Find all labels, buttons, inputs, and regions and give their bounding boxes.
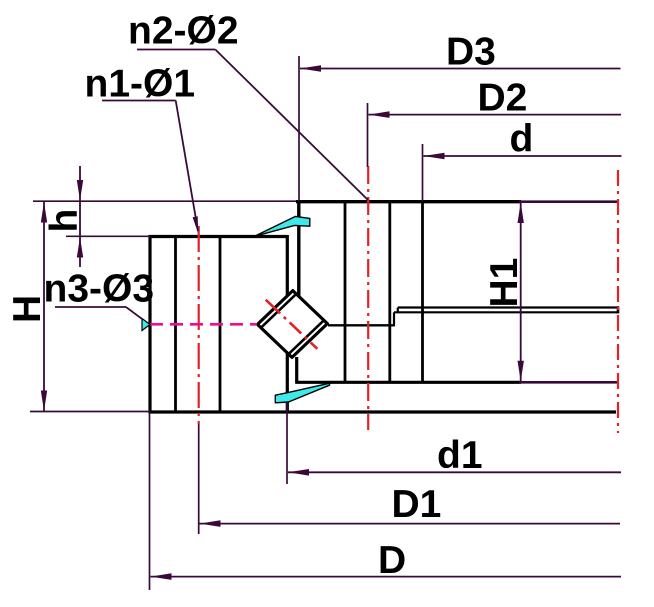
extension bottom surface left xyxy=(30,411,150,413)
top surface of outer ring xyxy=(296,200,618,203)
dimension D xyxy=(151,573,622,580)
extension D3 xyxy=(298,56,300,201)
inner ring top surface xyxy=(149,235,288,238)
seam upper line xyxy=(398,306,618,308)
roller axis diagonal center line xyxy=(266,300,318,349)
dimension h xyxy=(77,166,83,267)
dimension D1 xyxy=(200,520,621,527)
svg-text:H: H xyxy=(6,295,49,323)
svg-text:D: D xyxy=(378,539,406,582)
svg-text:d: d xyxy=(510,118,534,161)
leader n1 xyxy=(102,101,198,234)
lower raceway finish mark xyxy=(275,383,329,403)
seam right end connector xyxy=(617,306,620,313)
outer ring lower-half bore wall xyxy=(295,357,298,382)
seam line lower left of step xyxy=(328,324,394,326)
dimension d1 xyxy=(288,469,621,476)
seam step vertical right xyxy=(397,308,399,313)
center line n2 hole xyxy=(367,166,369,430)
roller diamond xyxy=(257,291,327,358)
svg-text:D2: D2 xyxy=(478,77,528,120)
inner ring right wall upper segment xyxy=(286,235,289,297)
inner ring right wall lower segment xyxy=(286,353,289,412)
dimension H xyxy=(41,201,47,411)
dimension d xyxy=(424,153,622,160)
inner ring bolt hole edge right xyxy=(219,237,222,412)
svg-text:n3-Ø3: n3-Ø3 xyxy=(44,268,155,311)
roller raceway line upper-left xyxy=(261,294,297,328)
extension D1 xyxy=(198,424,200,534)
leader n2 xyxy=(137,50,368,201)
n3 leader cyan triangle xyxy=(142,319,150,331)
inner ring bolt hole edge left xyxy=(174,237,177,412)
dimension D2 xyxy=(369,111,622,118)
center line n1 hole xyxy=(198,226,200,424)
svg-text:h: h xyxy=(43,209,86,233)
outer ring internal line d xyxy=(421,202,424,383)
dimension H1 xyxy=(518,202,524,382)
extension D2 xyxy=(367,103,369,167)
dimension D3 xyxy=(300,65,621,72)
outer ring internal line 1 xyxy=(344,202,347,383)
raceway contact magenta dashed line xyxy=(150,323,257,326)
extension d1 xyxy=(286,402,288,484)
svg-text:D3: D3 xyxy=(446,31,496,74)
seam lower line right of step xyxy=(394,311,618,313)
leader n3 xyxy=(55,307,143,319)
svg-text:n2-Ø2: n2-Ø2 xyxy=(128,10,239,53)
svg-text:H1: H1 xyxy=(483,258,526,308)
extension inner ring top left xyxy=(66,235,150,237)
outer ring bottom surface xyxy=(295,381,618,384)
inner ring bottom surface xyxy=(149,410,617,413)
extension top surface left xyxy=(33,200,296,202)
svg-text:n1-Ø1: n1-Ø1 xyxy=(85,63,196,106)
svg-text:d1: d1 xyxy=(437,434,483,477)
roller raceway line lower-right xyxy=(288,320,324,354)
inner ring left wall xyxy=(148,235,151,413)
outer ring bolt hole edge right xyxy=(388,202,391,383)
svg-text:D1: D1 xyxy=(392,483,442,526)
upper raceway finish mark xyxy=(254,216,310,236)
seam step vertical left xyxy=(393,312,395,326)
extension D xyxy=(149,413,151,590)
outer ring upper-half bore wall xyxy=(297,200,300,297)
extension d xyxy=(422,144,424,201)
bearing axis center line xyxy=(617,170,619,433)
